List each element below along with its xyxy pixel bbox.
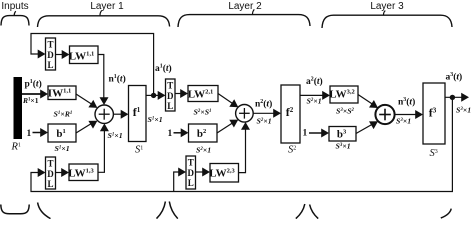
Layer 3 brace left end (bottom)	[310, 205, 319, 219]
svg-text:D: D	[167, 91, 174, 101]
sum junction layer1	[95, 105, 113, 123]
wire: a3 feedback down and across	[31, 97, 452, 191]
bias b1 box	[48, 124, 76, 142]
svg-text:S1×1: S1×1	[108, 131, 123, 140]
arrow LW32 diag into sum3	[369, 100, 378, 108]
svg-text:S1×1: S1×1	[55, 144, 70, 153]
TDL block layer1 bottom	[46, 157, 56, 189]
Layer 1 brace left end (bottom)	[38, 203, 51, 219]
arrow IW11 diag into sum1	[88, 100, 97, 108]
svg-text:S3×1: S3×1	[456, 106, 471, 115]
arrow LW23 up into sum2	[241, 122, 250, 130]
svg-text:S3×1: S3×1	[336, 142, 351, 151]
wire: LW23 up to sum2 bottom	[239, 129, 246, 173]
Layer 1 brace (top)	[38, 16, 170, 27]
wire: f1 output to layer2 TDL	[146, 94, 159, 96]
wire: IW11 diag to sum1	[76, 94, 93, 105]
wire: f2 output a2 to LW32	[300, 94, 324, 96]
wire: f3 output a3	[445, 96, 463, 98]
wire: b2 diag to sum2	[217, 122, 234, 133]
svg-text:T: T	[47, 159, 53, 169]
bias b2 box	[189, 124, 218, 142]
arrow 1 into b3	[321, 129, 329, 138]
svg-text:R1×1: R1×1	[22, 96, 39, 105]
arrow 1 into b1	[40, 128, 48, 137]
svg-text:1: 1	[168, 129, 173, 139]
wire: feedback riser to layer2 TDL	[174, 172, 180, 192]
svg-text:T: T	[167, 81, 173, 91]
weight LW32 box	[330, 86, 358, 103]
svg-text:S1×1: S1×1	[148, 115, 163, 124]
wire: LW32 diag to sum3	[358, 95, 375, 106]
arrow TDL2 to LW21	[180, 89, 188, 98]
node a1(t) junction dot	[151, 93, 156, 98]
svg-text:Layer 3: Layer 3	[370, 1, 404, 12]
wire: TDL1b to LW13	[56, 172, 63, 174]
arrow LW13 up into sum1	[100, 123, 109, 131]
arrow into IW11	[40, 90, 48, 99]
arrow into TDL1 bottom	[38, 168, 46, 177]
sum junction layer3	[375, 105, 394, 124]
svg-text:S2×1: S2×1	[307, 97, 322, 106]
arrow sum3 to f3	[415, 110, 423, 119]
svg-text:L: L	[188, 178, 194, 188]
bias b3 box	[329, 127, 356, 142]
transfer f3 box	[423, 83, 445, 144]
arrow TDL1 to LW11	[62, 50, 70, 59]
svg-text:n3(t): n3(t)	[398, 97, 415, 108]
weight IW11 box	[48, 86, 76, 100]
arrow LW21 diag into sum2	[229, 99, 238, 107]
svg-text:a1(t): a1(t)	[155, 63, 172, 74]
wire: sum3 to f3	[395, 114, 417, 116]
TDL block layer2 top	[166, 79, 176, 111]
Layer 2 brace (top)	[178, 15, 310, 27]
svg-text:D: D	[47, 50, 54, 60]
arrow sum2 to f2	[273, 109, 281, 118]
svg-text:S2×S1: S2×S1	[194, 108, 212, 117]
TDL block layer1 top	[46, 38, 56, 70]
weight LW11 box	[70, 46, 99, 64]
weight LW13 box	[69, 164, 98, 181]
arrow b3 diag into sum3	[369, 121, 378, 129]
input vector bar R1	[14, 77, 23, 139]
wire: LW21 diag to sum2	[218, 94, 234, 105]
wire: TDL2 to LW21	[175, 93, 182, 95]
arrow 1 into b2	[181, 128, 189, 137]
svg-text:S3×1: S3×1	[396, 117, 411, 126]
arrow into TDL2 bottom	[178, 168, 186, 177]
weight LW23 box	[210, 164, 239, 183]
svg-text:a3(t): a3(t)	[446, 72, 463, 83]
wire: sum2 to f2	[253, 112, 274, 114]
weight LW21 box	[188, 86, 218, 102]
wire: 1 to b1	[33, 132, 42, 134]
wire: a1 feedback loop to top TDL	[31, 34, 154, 96]
svg-text:D: D	[188, 168, 195, 178]
arrow LW11 down into sum1	[100, 97, 109, 105]
svg-text:n1(t): n1(t)	[109, 74, 126, 85]
Layer 2 brace left end (bottom)	[169, 202, 178, 219]
svg-text:S1×R1: S1×R1	[54, 110, 73, 119]
wire: 1 to b3	[309, 132, 323, 134]
svg-text:S2×1: S2×1	[257, 117, 272, 126]
wire: TDL1 top to LW11	[56, 54, 64, 56]
svg-text:T: T	[47, 40, 53, 50]
wire: LW11 output down to sum1	[98, 55, 104, 100]
svg-text:a2(t): a2(t)	[306, 76, 323, 87]
wire: LW13 up to sum1 bottom	[98, 130, 104, 173]
wire: TDL2b to LW23	[196, 171, 204, 173]
Layer 2 brace right end (bottom)	[296, 204, 305, 219]
wire: b1 diag to sum1	[76, 123, 93, 134]
svg-text:n2(t): n2(t)	[255, 99, 272, 110]
arrow b2 diag into sum2	[229, 120, 238, 128]
arrow a2 into LW32	[322, 91, 330, 100]
svg-text:D: D	[47, 169, 54, 179]
Inputs brace (bottom)	[1, 205, 29, 214]
arrow into TDL2 top	[158, 91, 166, 100]
svg-text:Inputs: Inputs	[1, 1, 28, 12]
wire: 1 to b2	[174, 132, 183, 134]
svg-text:Layer 1: Layer 1	[90, 1, 124, 12]
svg-text:Layer 2: Layer 2	[228, 1, 262, 12]
Layer 3 brace (top)	[322, 15, 452, 28]
svg-text:1: 1	[303, 129, 308, 139]
svg-text:S2×1: S2×1	[196, 146, 211, 155]
arrow b1 diag into sum1	[88, 121, 97, 129]
svg-text:L: L	[47, 179, 53, 189]
Layer 1 brace right end (bottom)	[157, 202, 166, 219]
arrow into top TDL1	[38, 50, 46, 59]
svg-text:1: 1	[27, 129, 32, 139]
Layer 3 brace right end (bottom)	[441, 209, 451, 218]
arrow TDL1b to LW13	[61, 168, 69, 177]
svg-text:T: T	[188, 158, 194, 168]
svg-text:L: L	[167, 101, 173, 111]
arrow sum1 to f1	[121, 110, 129, 119]
sum junction layer2	[236, 105, 254, 123]
arrow a3 output	[461, 93, 469, 102]
arrow TDL2b to LW23	[202, 168, 210, 177]
label Inputs brace (top)	[1, 16, 29, 26]
node a3(t) junction dot	[450, 95, 455, 100]
TDL block layer2 bottom	[186, 156, 196, 189]
wire: input p to IW11	[22, 93, 42, 95]
wire: sum1 to f1	[113, 113, 122, 115]
transfer f1 box	[129, 86, 147, 142]
transfer f2 box	[281, 85, 300, 143]
wire: b3 diag to sum3	[356, 123, 375, 134]
svg-text:L: L	[47, 60, 53, 70]
svg-text:p1(t): p1(t)	[25, 79, 42, 90]
